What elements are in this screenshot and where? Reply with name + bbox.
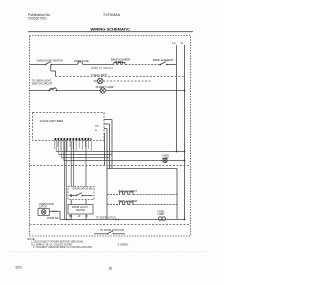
svg-text:MOTOR: MOTOR (76, 209, 85, 212)
svg-text:DOOR LATCH SW: DOOR LATCH SW (73, 188, 94, 191)
svg-text:DOOR SW: DOOR SW (47, 217, 59, 220)
svg-text:LATCH: LATCH (39, 205, 47, 208)
svg-text:← TO DOOR LATCH SW: ← TO DOOR LATCH SW (97, 229, 125, 232)
svg-text:OVEN LIGHT: OVEN LIGHT (92, 73, 108, 77)
svg-text:BK: BK (69, 215, 73, 218)
svg-text:LAMP: LAMP (158, 213, 165, 216)
svg-text:CLOCK AND TIMER: CLOCK AND TIMER (40, 119, 63, 123)
svg-text:W: W (78, 215, 81, 218)
svg-text:BL: BL (95, 130, 98, 132)
svg-text:2. CONNECT GROUND WIRE TO CHAS: 2. CONNECT GROUND WIRE TO CHASSIS GROUND… (33, 246, 93, 249)
svg-text:R: R (86, 215, 88, 218)
svg-text:RED: RED (95, 126, 100, 128)
svg-text:40 WATT LAMP: 40 WATT LAMP (96, 85, 114, 89)
svg-text:OVEN DOOR SWITCH: OVEN DOOR SWITCH (37, 59, 63, 63)
svg-text:3000W: 3000W (115, 60, 124, 64)
svg-text:BROIL ELEMENT: BROIL ELEMENT (119, 200, 139, 203)
svg-text:OVEN FUSE: OVEN FUSE (74, 59, 89, 63)
svg-text:TGF304AA: TGF304AA (103, 13, 121, 17)
svg-text:N: N (181, 41, 183, 45)
svg-text:TO DOOR LATCH: TO DOOR LATCH (96, 216, 116, 219)
svg-text:BROIL ELEMENT: BROIL ELEMENT (153, 58, 174, 62)
svg-text:L1: L1 (172, 41, 176, 45)
svg-text:WIRING SCHEMATIC: WIRING SCHEMATIC (91, 26, 131, 31)
svg-text:LAMP: LAMP (162, 157, 169, 160)
svg-text:SWITCH CIRCUIT: SWITCH CIRCUIT (32, 81, 54, 85)
svg-text:2-GR637: 2-GR637 (118, 242, 129, 246)
svg-text:BAKE ELEMENT: BAKE ELEMENT (119, 190, 138, 193)
svg-text:5995307951: 5995307951 (28, 17, 47, 21)
svg-text:OVEN TC CIRCUIT: OVEN TC CIRCUIT (91, 66, 114, 70)
svg-text:16: 16 (109, 267, 113, 271)
svg-text:6/02: 6/02 (16, 266, 22, 270)
